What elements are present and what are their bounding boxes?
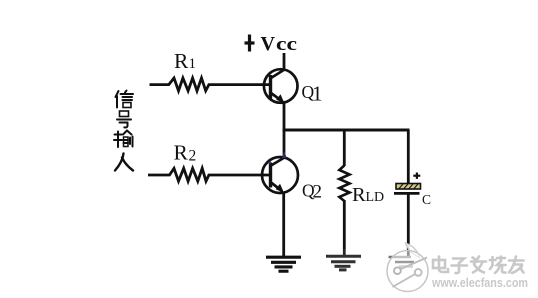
友 (509, 257, 524, 274)
svg-text:1: 1 (189, 56, 197, 72)
wire Q2 emitter down to ground (282, 192, 285, 256)
watermark logo circle (387, 243, 428, 292)
resistor R1 with input wire (150, 78, 271, 91)
wire Vcc to Q1 collector (283, 53, 286, 70)
svg-text:V: V (261, 33, 276, 55)
wire rail down to RLD (343, 130, 346, 166)
svg-text:1: 1 (312, 82, 323, 106)
电 (433, 257, 448, 273)
transistor Q1 (264, 69, 298, 103)
capacitor C bottom plate (394, 192, 420, 195)
ground 1 (below Q2) (266, 257, 301, 271)
ground 3 (below C, partly hidden by watermark) (389, 257, 415, 267)
Q2 collector blue arrow mark (282, 151, 287, 158)
wire Q1 emitter down to output rail (283, 103, 286, 132)
char 入 (115, 154, 133, 171)
ground 2 (below RLD) (326, 256, 361, 270)
烧 (490, 257, 506, 274)
svg-text:R: R (174, 49, 189, 73)
子 (452, 259, 468, 274)
svg-text:R: R (352, 184, 366, 206)
Q1 emitter arrowhead (276, 94, 284, 103)
watermark text 电子发烧友 (433, 257, 524, 274)
svg-text:R: R (174, 141, 189, 165)
char 信 (116, 91, 134, 108)
发 (471, 257, 486, 273)
wire capacitor to ground (407, 194, 410, 256)
wire rail down to capacitor (407, 130, 410, 184)
Q2 emitter arrowhead (276, 184, 284, 193)
wire RLD to ground (343, 200, 346, 256)
svg-text:2: 2 (189, 148, 197, 165)
output rail wire (283, 129, 410, 132)
svg-text:www.elecfans.com: www.elecfans.com (431, 276, 528, 290)
svg-text:2: 2 (313, 182, 323, 203)
char 输 (114, 131, 133, 148)
capacitor C top plate (hatched) (396, 184, 421, 190)
svg-text:LD: LD (366, 190, 385, 205)
power label +Vcc (245, 35, 255, 52)
transistor Q2 (262, 157, 298, 193)
wire rail down to Q2 collector (283, 130, 286, 158)
svg-text:cc: cc (276, 34, 297, 55)
resistor RLD (vertical zigzag) (339, 166, 349, 202)
char 号 (117, 111, 131, 127)
watermark swoosh over ground 2 (318, 243, 373, 291)
capacitor plus sign (413, 173, 420, 179)
svg-text:C: C (422, 192, 431, 207)
resistor R2 with input wire (148, 168, 270, 181)
vertical input text 信号输入 (114, 91, 133, 171)
